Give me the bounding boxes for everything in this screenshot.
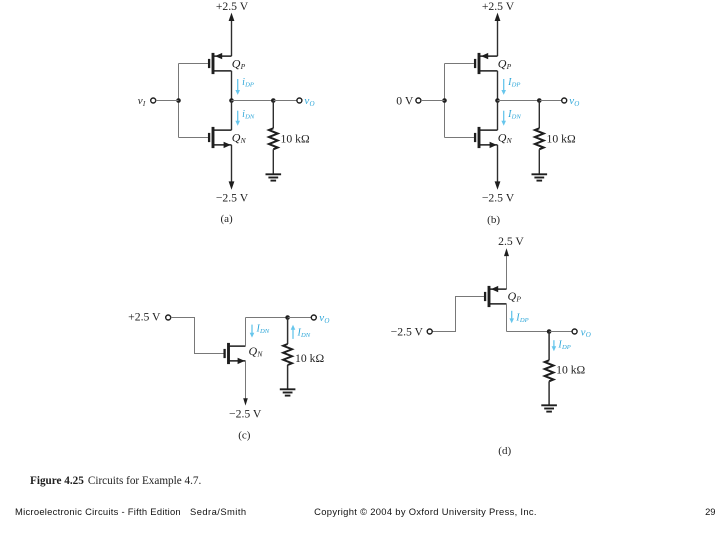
current arrow IDP resistor (d) [552,340,557,351]
power label +2.5 V (b) [482,0,515,13]
svg-text:IDP: IDP [557,340,570,352]
svg-text:QN: QN [249,344,264,359]
terminal vO (d) [572,329,577,334]
junction resistor top (d) [547,329,552,334]
svg-text:10 kΩ: 10 kΩ [547,133,576,146]
power label 2.5 V (d) [498,235,524,248]
svg-text:(b): (b) [487,214,500,226]
svg-text:IDN: IDN [297,328,311,340]
svg-text:(a): (a) [220,213,233,225]
footer page number [705,506,715,517]
terminal -2.5V (d) [427,329,432,334]
ground (b) [532,174,548,180]
junction resistor top (a) [271,98,276,103]
label QP (a) [232,56,246,71]
label QN (c) [249,344,264,359]
label IDN resistor (c) [297,328,311,340]
svg-text:QN: QN [498,130,513,145]
wire QN drain up (c) [245,318,247,347]
resistor 10k (b) [535,101,544,175]
wire junction to vO (a) [273,100,297,102]
terminal vO (c) [311,315,316,320]
terminal 0V (b) [416,98,421,103]
label QN (a) [232,130,247,145]
wire drain to junction (d) [507,331,550,333]
resistor 10k (a) [269,101,278,175]
label IDN (c) [256,324,270,336]
junction resistor top (c) [285,315,290,320]
svg-text:iDP: iDP [242,77,254,89]
wire junction to vO (c) [288,317,312,319]
svg-text:vO: vO [569,95,579,108]
wire junction to vO (b) [539,100,561,102]
current arrow IDN (b) [501,111,506,126]
caption (d) [498,445,511,457]
terminal vO (a) [297,98,302,103]
footer authors [190,506,247,517]
svg-text:10 kΩ: 10 kΩ [556,363,585,376]
wire QP drain to node (a) [231,71,233,101]
wire gate to input (d) [432,297,484,332]
node output junction (a) [229,98,234,103]
svg-text:iDN: iDN [242,109,255,121]
current arrow IDP (d) [509,311,514,324]
label vO (c) [319,312,329,325]
wire vI to gate bus (a) [156,100,179,102]
junction gate bus (b) [442,98,447,103]
wire QP gate (b) [445,63,475,65]
wire QN gate (b) [445,137,475,139]
label vO (a) [304,95,314,108]
label 0 V (b) [396,94,414,107]
label vO (b) [569,95,579,108]
label vI (a) [138,95,146,108]
label QP (b) [498,56,512,71]
svg-text:−2.5 V: −2.5 V [482,191,515,204]
svg-text:QN: QN [232,130,247,145]
footer book title [15,506,181,517]
svg-text:vO: vO [319,312,329,325]
power label +2.5 V (a) [216,0,249,13]
wire node to resistor (b) [498,100,540,102]
svg-text:IDP: IDP [507,77,520,89]
svg-text:vO: vO [304,95,314,108]
power label +2.5 V (c) [128,311,161,324]
label iDP (a) [242,77,254,89]
svg-text:IDN: IDN [256,324,270,336]
current arrow iDP (a) [235,79,240,95]
svg-text:2.5 V: 2.5 V [498,235,524,248]
terminal vI (a) [151,98,156,103]
ground (c) [280,389,296,395]
label IDP (d) [515,313,528,325]
svg-text:QP: QP [232,56,246,71]
footer copyright [314,506,537,517]
terminal +2.5V (c) [166,315,171,320]
label vO (d) [581,326,591,339]
transistor QN (b) [475,127,497,148]
svg-text:−2.5 V: −2.5 V [229,408,262,421]
svg-text:−2.5 V: −2.5 V [216,191,249,204]
svg-text:Sedra/Smith: Sedra/Smith [190,506,247,517]
caption (a) [220,213,233,225]
wire QP drain down (d) [506,304,508,332]
label IDN (b) [507,109,521,121]
current arrow iDN (a) [235,111,240,126]
current arrow IDN (c) [250,325,255,338]
svg-text:10 kΩ: 10 kΩ [295,352,324,365]
svg-text:Figure 4.25Circuits for Exampl: Figure 4.25Circuits for Example 4.7. [30,475,201,487]
terminal vO (b) [562,98,567,103]
node output junction (b) [495,98,500,103]
svg-text:+2.5 V: +2.5 V [216,0,249,13]
source arrow to -2.5V (c) [243,361,248,406]
wire gate bus (a) [178,64,180,138]
wire node to QN drain (a) [231,101,233,131]
caption (b) [487,214,500,226]
svg-text:Microelectronic Circuits - Fif: Microelectronic Circuits - Fifth Edition [15,506,181,517]
power label -2.5 V (a) [216,191,249,204]
svg-text:IDN: IDN [507,109,521,121]
wire gate bus (b) [444,64,446,138]
svg-text:0 V: 0 V [396,94,414,107]
label QP (d) [508,289,522,304]
transistor QP (d) [485,286,506,307]
transistor QP (b) [475,53,497,74]
transistor QP (a) [209,53,231,74]
junction resistor top (b) [537,98,542,103]
wire node to resistor (a) [232,100,274,102]
label 10 kOhm (b) [547,133,576,146]
svg-text:Copyright © 2004 by Oxford Uni: Copyright © 2004 by Oxford University Pr… [314,506,537,517]
power label -2.5 V (b) [482,191,515,204]
label iDN (a) [242,109,255,121]
ground (a) [266,174,282,180]
resistor 10k (d) [545,332,554,406]
power label -2.5 V (c) [229,408,262,421]
label QN (b) [498,130,513,145]
wire QP drain to node (b) [497,71,499,101]
label 10 kOhm (a) [281,133,310,146]
power arrow +2.5V (a) [229,13,235,57]
source arrow to -2.5V (b) [495,145,501,190]
current arrow IDN resistor (c) [291,325,296,339]
caption (c) [238,430,251,442]
power arrow +2.5V (b) [495,13,501,57]
svg-text:vI: vI [138,95,146,108]
svg-text:−2.5 V: −2.5 V [391,325,424,338]
resistor 10k (c) [283,318,292,390]
transistor QN (a) [209,127,231,148]
figure caption [30,475,201,487]
svg-text:+2.5 V: +2.5 V [128,311,161,324]
svg-text:IDP: IDP [515,313,528,325]
svg-text:QP: QP [498,56,512,71]
label 10 kOhm (c) [295,352,324,365]
svg-text:29: 29 [705,506,715,517]
label IDP resistor (d) [557,340,570,352]
svg-text:+2.5 V: +2.5 V [482,0,515,13]
power label -2.5 V (d) [391,325,424,338]
svg-text:(c): (c) [238,430,251,442]
label 10 kOhm (d) [556,363,585,376]
svg-text:QP: QP [508,289,522,304]
source arrow to -2.5V (a) [229,145,235,190]
svg-text:10 kΩ: 10 kΩ [281,133,310,146]
junction gate bus (a) [176,98,181,103]
svg-text:(d): (d) [498,445,511,457]
ground (d) [541,405,557,411]
wire +2.5V to gate (c) [171,318,224,354]
power arrow 2.5V (d) [504,248,509,289]
wire junction to vO (d) [549,331,572,333]
current arrow IDP (b) [501,79,506,95]
transistor QN (c) [225,343,246,364]
wire node to QN drain (b) [497,101,499,131]
wire QP gate (a) [179,63,209,65]
svg-text:vO: vO [581,326,591,339]
wire input to gate bus (b) [421,100,445,102]
wire drain to junction (c) [246,317,288,319]
wire QN gate (a) [179,137,209,139]
label IDP (b) [507,77,520,89]
